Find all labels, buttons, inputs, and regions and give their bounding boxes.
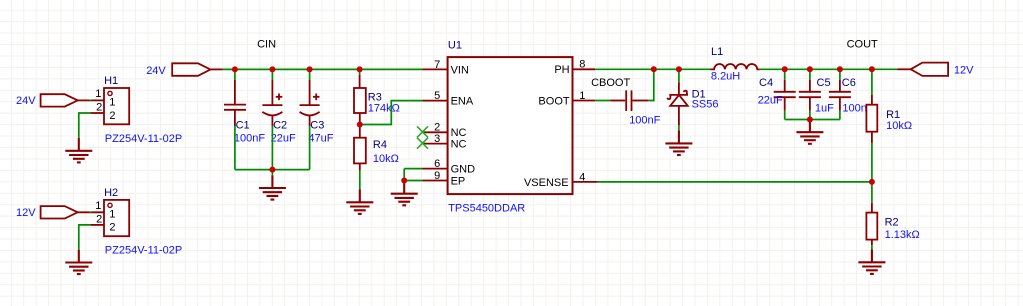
wire input bottom rail — [235, 169, 310, 171]
wire H1 pin2 to ground — [79, 113, 91, 138]
svg-text:6: 6 — [434, 158, 440, 170]
svg-text:10kΩ: 10kΩ — [373, 153, 399, 165]
svg-text:VSENSE: VSENSE — [524, 177, 569, 189]
capacitor C4 — [758, 77, 796, 106]
svg-text:2: 2 — [109, 222, 115, 234]
svg-text:C3: C3 — [310, 119, 324, 131]
wire C6 bottom — [839, 97, 841, 119]
wire C1 top drop — [234, 69, 236, 104]
junction D1/PH rail — [676, 66, 682, 72]
svg-text:8: 8 — [579, 59, 585, 71]
junction R1/R2/VSENSE — [869, 179, 875, 185]
wire input rail CIN — [223, 68, 423, 70]
wire GND pin6 — [404, 168, 422, 170]
wire port24V to VIN rail (red stub) — [210, 68, 222, 70]
connector H1 — [90, 75, 182, 145]
svg-text:1: 1 — [109, 97, 115, 109]
junction C6/COUT rail — [837, 66, 843, 72]
svg-text:174kΩ: 174kΩ — [368, 103, 400, 115]
junction output cap ground rail — [807, 117, 813, 123]
capacitor C5 — [799, 77, 834, 114]
svg-text:ENA: ENA — [451, 96, 474, 108]
svg-text:H1: H1 — [104, 75, 118, 87]
ground D1 — [665, 130, 692, 155]
wire C3 top drop — [309, 69, 311, 105]
port 12V (H2) — [16, 206, 78, 219]
svg-text:47uF: 47uF — [308, 132, 333, 144]
junction CBOOT/PH rail — [651, 66, 657, 72]
wire input rail ground stub — [271, 170, 273, 176]
wire R1/R2 junction down — [871, 182, 873, 213]
capacitor C1 — [224, 105, 265, 145]
junction R3/R4/ENA — [357, 122, 363, 128]
svg-text:1: 1 — [95, 88, 101, 100]
NC X mark pin2 — [417, 126, 428, 137]
svg-text:C2: C2 — [273, 119, 287, 131]
junction C1/CIN rail — [232, 66, 238, 72]
wire C5 bottom — [809, 97, 811, 119]
resistor R2 — [866, 213, 919, 241]
svg-text:1: 1 — [579, 90, 585, 102]
wire C3 bottom — [309, 115, 311, 170]
svg-text:BOOT: BOOT — [538, 95, 569, 107]
svg-text:CBOOT: CBOOT — [591, 77, 630, 89]
svg-text:TPS5450DDAR: TPS5450DDAR — [448, 202, 525, 214]
svg-text:22uF: 22uF — [758, 94, 783, 106]
junction dots output side — [651, 66, 875, 185]
svg-text:10kΩ: 10kΩ — [886, 120, 912, 132]
svg-text:NC: NC — [451, 127, 467, 139]
ground R4 — [346, 189, 373, 214]
svg-text:R2: R2 — [885, 216, 899, 228]
resistor R1 — [866, 105, 912, 132]
wire EP pin9 — [404, 180, 422, 182]
pin 3 NC stub — [423, 133, 448, 145]
svg-text:U1: U1 — [448, 39, 462, 51]
capacitor C3 (polarized) — [300, 94, 334, 145]
capacitor C2 (polarized) — [262, 94, 296, 145]
wire C1 bottom — [234, 110, 236, 170]
wire C6 top drop — [839, 69, 841, 92]
wire H2 pin2 to ground — [79, 225, 91, 250]
ground H2 — [65, 250, 92, 274]
junction input ground rail — [269, 167, 275, 173]
wire BOOT to CBOOT cap — [595, 100, 610, 102]
svg-text:2: 2 — [96, 102, 102, 114]
NC X mark pin3 — [417, 138, 428, 149]
pin 5 ENA stub — [423, 90, 448, 102]
pin 6 GND stub — [423, 158, 448, 170]
wire output bottom rail — [785, 119, 840, 121]
wire VSENSE net — [598, 181, 872, 183]
wire ENA net R3/R4 junction to pin5 — [360, 101, 423, 125]
connector H2 — [90, 187, 182, 257]
svg-text:R4: R4 — [373, 139, 387, 151]
wire GND to EP vertical — [403, 169, 405, 181]
wire COUT rail — [760, 68, 898, 70]
junction C3/CIN rail — [307, 66, 313, 72]
junction dots input rail — [232, 66, 363, 172]
svg-text:H2: H2 — [104, 187, 118, 199]
svg-text:2: 2 — [434, 122, 440, 134]
svg-text:2: 2 — [109, 110, 115, 122]
pin 8 PH stub — [573, 59, 596, 71]
svg-text:1uF: 1uF — [815, 103, 834, 115]
wire CBOOT to PH rail — [648, 69, 653, 100]
inductor L1 — [710, 46, 760, 82]
pin 7 VIN stub — [423, 59, 448, 71]
svg-text:C6: C6 — [842, 77, 856, 89]
junction R1/COUT rail — [869, 66, 875, 72]
wire R1 bottom — [871, 132, 873, 182]
svg-text:NC: NC — [451, 139, 467, 151]
capacitor CBOOT 100nF — [591, 77, 661, 127]
pin 4 VSENSE stub — [573, 171, 598, 183]
junction dot GND/EP — [401, 178, 407, 184]
wire D1 top drop — [678, 69, 680, 95]
ground H1 — [65, 138, 92, 163]
svg-text:100nF: 100nF — [629, 115, 660, 127]
svg-text:1.13kΩ: 1.13kΩ — [885, 229, 920, 241]
svg-text:8.2uH: 8.2uH — [711, 70, 740, 82]
port 12V output — [911, 63, 974, 77]
wire R3 top drop — [359, 69, 361, 88]
wire C4 top drop — [784, 69, 786, 92]
pin 9 EP stub — [423, 170, 448, 182]
svg-text:1: 1 — [109, 209, 115, 221]
svg-text:VIN: VIN — [451, 64, 469, 76]
wire C5 top drop — [809, 69, 811, 92]
svg-text:PH: PH — [554, 64, 569, 76]
svg-text:2: 2 — [96, 213, 102, 225]
ground U1 GND/EP — [391, 181, 418, 206]
svg-text:GND: GND — [451, 164, 476, 176]
port 24V (H1) — [16, 94, 78, 107]
svg-text:24V: 24V — [16, 95, 36, 107]
svg-text:100nF: 100nF — [234, 132, 265, 144]
svg-text:9: 9 — [434, 170, 440, 182]
svg-text:SS56: SS56 — [692, 98, 719, 110]
junction R3/CIN rail — [357, 66, 363, 72]
wire D1 bottom — [678, 106, 680, 130]
wire R4 bottom — [359, 163, 361, 189]
wire C2 bottom — [271, 115, 273, 170]
ground R2 — [858, 250, 885, 274]
junction C4/COUT rail — [782, 66, 788, 72]
wire R3 bottom lead — [359, 113, 361, 125]
wire port to H2 pin1 — [78, 211, 104, 213]
port 24V input (top) — [146, 63, 210, 77]
wire C4 bottom — [784, 97, 786, 119]
junction C2/CIN rail — [269, 66, 275, 72]
wire port to H1 pin1 — [78, 99, 104, 101]
svg-text:12V: 12V — [954, 64, 974, 76]
capacitor C6 — [829, 77, 874, 114]
svg-text:CIN: CIN — [257, 39, 276, 51]
wire R1 top drop — [871, 69, 873, 104]
resistor R4 — [354, 138, 399, 165]
svg-text:L1: L1 — [711, 46, 723, 58]
pin 1 BOOT stub — [573, 90, 596, 102]
svg-text:12V: 12V — [16, 207, 36, 219]
wire R2 bottom — [871, 240, 873, 250]
svg-text:3: 3 — [434, 133, 440, 145]
wire out rail to port stub — [897, 68, 911, 70]
wire C2 top drop — [271, 69, 273, 105]
diode D1 SS56 — [668, 88, 719, 110]
svg-text:C1: C1 — [236, 119, 250, 131]
ground output caps — [796, 120, 823, 144]
svg-text:COUT: COUT — [847, 39, 878, 51]
ground input rail — [259, 175, 286, 199]
svg-text:C4: C4 — [759, 77, 773, 89]
pin 2 NC stub — [423, 122, 448, 134]
junction C5/COUT rail — [807, 66, 813, 72]
svg-text:PZ254V-11-02P: PZ254V-11-02P — [105, 245, 182, 257]
svg-text:1: 1 — [95, 200, 101, 212]
svg-text:C5: C5 — [817, 77, 831, 89]
op-amp U1 TPS5450DDAR — [448, 39, 573, 214]
svg-text:5: 5 — [434, 90, 440, 102]
svg-text:24V: 24V — [146, 65, 166, 77]
wire R4 top lead — [359, 125, 361, 138]
svg-text:4: 4 — [579, 171, 585, 183]
svg-text:22uF: 22uF — [271, 132, 296, 144]
svg-text:7: 7 — [434, 59, 440, 71]
svg-text:PZ254V-11-02P: PZ254V-11-02P — [105, 133, 182, 145]
resistor R3 — [354, 88, 400, 115]
wire PH rail — [595, 68, 710, 70]
svg-text:EP: EP — [451, 175, 466, 187]
